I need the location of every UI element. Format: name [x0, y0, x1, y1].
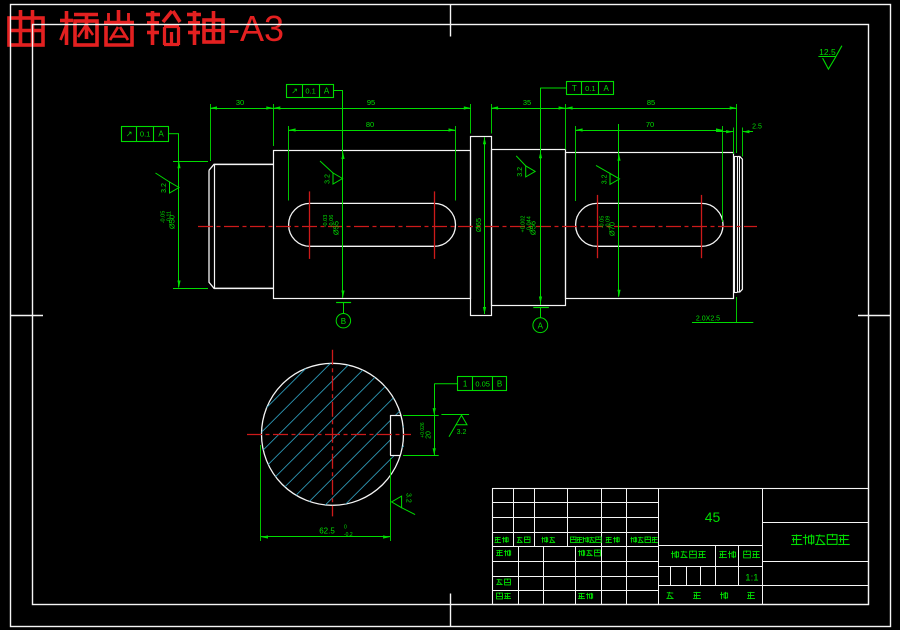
svg-text:Ø65: Ø65 [474, 218, 483, 232]
keyway notch in section [390, 415, 401, 455]
svg-text:↗: ↗ [126, 130, 133, 139]
keyway slot 1 [289, 203, 456, 246]
label check [496, 579, 510, 585]
svg-text:62.5: 62.5 [319, 527, 335, 536]
svg-text:95: 95 [367, 98, 375, 107]
svg-text:2.5: 2.5 [752, 124, 762, 131]
dim 85 [566, 98, 737, 110]
svg-text:3.2: 3.2 [161, 183, 168, 193]
dim 35 [491, 98, 565, 110]
svg-text:↗: ↗ [291, 87, 298, 96]
tolerance frame 4 symmetry 0.05 B [434, 376, 506, 391]
dim dia70 segment 4 [600, 124, 621, 297]
svg-text:1: 1 [463, 380, 468, 389]
datum circle B [336, 302, 351, 328]
keyway 2 end centerlines [598, 195, 702, 258]
svg-text:80: 80 [366, 120, 374, 129]
svg-text:-0.2: -0.2 [344, 532, 353, 538]
dim 70 keyway 2 [576, 120, 723, 132]
svg-text:-A3: -A3 [228, 8, 284, 49]
svg-text:A: A [538, 321, 544, 330]
svg-text:A: A [324, 87, 330, 96]
svg-text:-0.06: -0.06 [329, 215, 335, 228]
dim dia55 segment 2 [323, 91, 345, 299]
label approve [578, 593, 593, 599]
dim 95 [273, 98, 471, 110]
dim dia50 segment 1 [161, 134, 209, 289]
svg-text:B: B [341, 317, 346, 326]
datum circle A [533, 307, 549, 332]
shoulder collar (dia 65) [471, 137, 492, 316]
roughness 12.5 general [818, 46, 842, 69]
svg-text:0.1: 0.1 [305, 87, 315, 96]
svg-text:0.1: 0.1 [585, 84, 595, 93]
keyway slot 2 [576, 203, 723, 246]
section crosshair centerlines [247, 350, 411, 517]
tolerance frame 1 runout 0.1 A [122, 126, 180, 141]
svg-text:-0.09: -0.09 [606, 216, 612, 229]
shaft segment 2 (keyway journal, dia 55) [274, 151, 471, 299]
dim dia65 collar [474, 137, 486, 314]
roughness 3.2 segment 4 [596, 165, 620, 184]
svg-text:70: 70 [646, 120, 654, 129]
dim 62.5 section flat [261, 445, 391, 541]
svg-text:0: 0 [344, 525, 347, 531]
roughness 3.2 segment 3 [516, 156, 535, 177]
tolerance frame 3 perpendicularity 0.1 A [540, 81, 613, 95]
section B-B circle outline [262, 363, 404, 505]
scale 1:1 [745, 573, 758, 584]
roughness 3.2 keyway flat [392, 493, 416, 515]
material 45 [705, 509, 721, 525]
svg-text:0.05: 0.05 [475, 380, 490, 389]
svg-text:0.1: 0.1 [140, 130, 150, 139]
svg-text:2.0X2.5: 2.0X2.5 [696, 316, 720, 323]
svg-text:35: 35 [523, 98, 531, 107]
tolerance frame 2 runout 0.1 A [287, 84, 344, 98]
roughness 3.2 keyway top surface [441, 415, 469, 437]
svg-text:12.5: 12.5 [819, 47, 836, 57]
label process [497, 593, 511, 600]
keyway 1 end centerlines [310, 191, 435, 259]
roughness 3.2 segment 2 [320, 161, 343, 184]
svg-text:3.2: 3.2 [457, 429, 467, 436]
groove spec leader 2.0X2.5 [692, 297, 753, 323]
main axis centerline [198, 226, 757, 228]
shaft end cap with chamfer [738, 157, 743, 293]
dim dia56 segment 3 [521, 88, 543, 305]
dim 30 [210, 98, 273, 110]
label weight [719, 551, 736, 558]
svg-text:+0.026: +0.026 [420, 422, 426, 438]
centering tick right [858, 315, 890, 317]
svg-text:-0.11: -0.11 [167, 211, 173, 223]
label standardization [578, 550, 600, 557]
svg-text:3.2: 3.2 [325, 174, 332, 184]
label design [496, 550, 511, 556]
dim 80 keyway 1 [289, 120, 456, 132]
dim 2.5 end cap [716, 124, 762, 134]
svg-text:A: A [158, 130, 164, 139]
sheet count row [666, 592, 755, 599]
label scale [744, 551, 760, 559]
drawing title 曲柄齿轮轴-A3 (red fake CJK strokes) [9, 8, 284, 49]
svg-text:20: 20 [426, 431, 433, 439]
svg-text:30: 30 [236, 98, 244, 107]
centering tick left [11, 315, 43, 317]
dim 20 keyway width [403, 384, 439, 456]
section hatching cyan [130, 324, 545, 544]
svg-text:3.2: 3.2 [602, 174, 609, 184]
svg-text:1:1: 1:1 [745, 573, 758, 584]
retaining-ring groove 2.0x2.5 [733, 157, 737, 293]
svg-text:A: A [604, 84, 610, 93]
svg-text:45: 45 [705, 509, 721, 525]
svg-text:-0.044: -0.044 [527, 216, 533, 232]
svg-text:3.2: 3.2 [517, 167, 524, 177]
header row labels [495, 537, 659, 543]
shaft segment 3 (dia 56) [492, 150, 566, 306]
extension lines above shaft [211, 104, 743, 222]
svg-text:85: 85 [647, 98, 655, 107]
shaft segment 1 (left end, dia 50) [209, 164, 273, 288]
svg-text:3.2: 3.2 [405, 493, 412, 503]
label stage mark [671, 551, 706, 559]
part name [791, 534, 850, 545]
svg-text:B: B [497, 380, 502, 389]
shaft segment 4 (keyway journal, dia 70) [566, 153, 734, 299]
centering tick bottom [450, 594, 452, 627]
roughness 3.2 segment 1 [156, 173, 180, 193]
title block grid [492, 489, 868, 606]
centering tick top [450, 5, 452, 37]
svg-text:T: T [572, 84, 577, 93]
